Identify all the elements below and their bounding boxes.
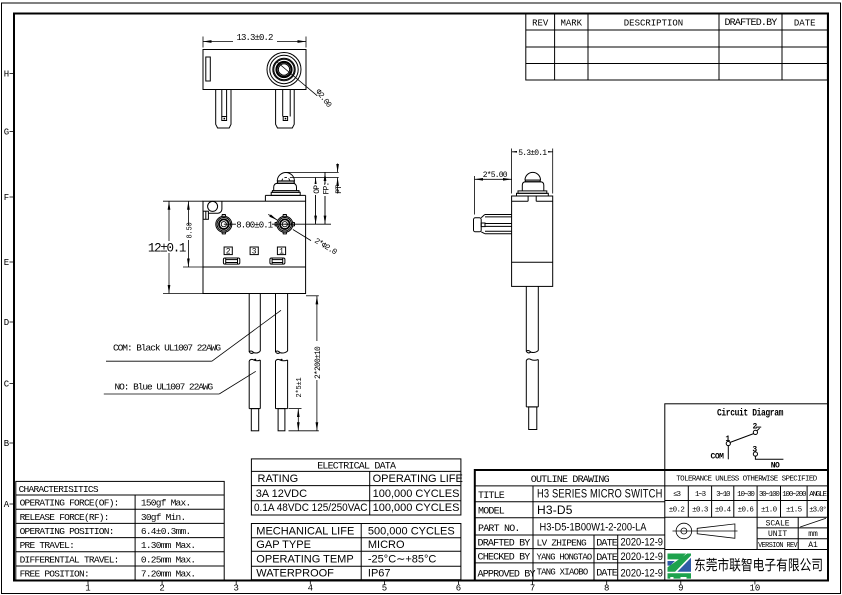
svg-text:DRAFTED.BY: DRAFTED.BY <box>724 18 777 29</box>
svg-text:2: 2 <box>752 422 757 431</box>
svg-text:100∼200: 100∼200 <box>782 491 807 499</box>
svg-text:VERSION REV: VERSION REV <box>758 542 798 550</box>
svg-text:3A 12VDC: 3A 12VDC <box>256 488 307 500</box>
svg-text:GAP TYPE: GAP TYPE <box>256 539 311 551</box>
company logo <box>668 554 692 579</box>
svg-text:8.00±0.1: 8.00±0.1 <box>236 221 273 231</box>
side view: button base plate 1 <box>518 191 547 193</box>
side view: button base plate 2 <box>517 193 549 196</box>
terminal number plate 3 <box>250 247 258 255</box>
svg-text:10∼30: 10∼30 <box>737 491 755 499</box>
svg-text:OUTLINE DRAWING: OUTLINE DRAWING <box>531 475 610 486</box>
svg-text:CHARACTERISITICS: CHARACTERISITICS <box>19 484 99 495</box>
svg-text:7: 7 <box>530 584 535 594</box>
svg-text:H: H <box>4 70 9 80</box>
svg-text:CHECKED BY: CHECKED BY <box>478 552 531 563</box>
svg-text:COM: Black UL1007 22AWG: COM: Black UL1007 22AWG <box>113 343 221 354</box>
svg-text:8.50: 8.50 <box>186 222 194 238</box>
svg-text:SCALE: SCALE <box>766 520 790 529</box>
front view: rivet left <box>216 216 232 232</box>
dimension 13.3±0.2 <box>202 37 204 48</box>
svg-text:5: 5 <box>382 584 387 594</box>
dimension 5.3±0.1 <box>511 149 513 194</box>
svg-text:1.30mm Max.: 1.30mm Max. <box>141 540 195 551</box>
svg-text:100,000 CYCLES: 100,000 CYCLES <box>373 488 460 500</box>
dimension FP <box>324 172 326 224</box>
side view: button shoulder <box>522 182 544 191</box>
svg-text:DATE: DATE <box>596 539 618 550</box>
front view: dome operating-position dashed arc <box>282 177 290 180</box>
top view: right terminal leg <box>276 90 295 129</box>
svg-text:2020-12-9: 2020-12-9 <box>621 551 664 563</box>
reference line operating position <box>290 177 339 179</box>
svg-text:12±0.1: 12±0.1 <box>148 242 186 256</box>
top view: left terminal leg <box>216 90 231 129</box>
leader 2*Φ2.0 <box>268 214 277 220</box>
svg-text:DATE: DATE <box>794 18 816 28</box>
svg-text:MECHANICAL LIFE: MECHANICAL LIFE <box>256 525 354 537</box>
svg-text:10: 10 <box>749 584 760 594</box>
svg-text:H3 SERIES MICRO SWITCH: H3 SERIES MICRO SWITCH <box>537 487 663 501</box>
wire 2 upper segment <box>275 294 277 353</box>
svg-text:OPERATING FORCE(OF):: OPERATING FORCE(OF): <box>20 498 119 509</box>
svg-text:30∼100: 30∼100 <box>759 491 781 499</box>
svg-text:FREE POSITION:: FREE POSITION: <box>20 569 89 580</box>
svg-text:Circuit Diagram: Circuit Diagram <box>717 408 783 420</box>
circuit contact 3 (NO) <box>753 452 757 456</box>
svg-text:YANG HONGTAO: YANG HONGTAO <box>537 551 593 562</box>
svg-text:TANG XIAOBO: TANG XIAOBO <box>537 566 589 577</box>
svg-text:6.4±0.3mm.: 6.4±0.3mm. <box>141 526 191 537</box>
svg-text:30gf Min.: 30gf Min. <box>141 512 186 523</box>
svg-text:1: 1 <box>85 584 90 594</box>
svg-text:F: F <box>4 193 9 203</box>
svg-text:OPERATING LIFE: OPERATING LIFE <box>373 473 463 485</box>
svg-text:1∼3: 1∼3 <box>695 491 707 499</box>
side view: lever arm tip cap <box>474 218 482 232</box>
terminal number plate 2 <box>224 247 232 255</box>
scale/unit/version rows <box>757 527 828 529</box>
svg-text:8: 8 <box>604 584 609 594</box>
svg-text:OP: OP <box>313 185 322 194</box>
svg-text:ANGLE: ANGLE <box>809 491 827 499</box>
front view: dome base band <box>278 181 295 183</box>
reference line free position <box>286 171 339 173</box>
svg-text:±0.2: ±0.2 <box>669 507 685 515</box>
wire 1 lower segment <box>248 361 250 409</box>
svg-text:OPERATING TEMP: OPERATING TEMP <box>256 554 353 566</box>
circuit contact 1 (COM) <box>726 441 730 445</box>
svg-text:2*5±1: 2*5±1 <box>296 377 304 397</box>
svg-text:IP67: IP67 <box>368 568 391 580</box>
side view: wire lower segment <box>525 361 527 407</box>
svg-text:±3.0°: ±3.0° <box>809 506 826 515</box>
svg-text:2*200±10: 2*200±10 <box>314 346 323 379</box>
title block outline <box>475 470 828 581</box>
wire 2 lower segment <box>275 361 277 409</box>
svg-text:0.25mm Max.: 0.25mm Max. <box>141 554 195 565</box>
svg-text:4: 4 <box>308 584 313 594</box>
top view: switch body outline <box>203 50 306 90</box>
side view: lever arm pin <box>481 223 485 227</box>
svg-text:LV ZHIPENG: LV ZHIPENG <box>537 537 588 548</box>
svg-text:NO: Blue UL1007 22AWG: NO: Blue UL1007 22AWG <box>115 382 214 393</box>
svg-text:APPROVED BY: APPROVED BY <box>478 569 536 580</box>
svg-text:±0.6: ±0.6 <box>738 507 755 515</box>
front view: rivet right <box>277 216 293 232</box>
terminal number plate 1 <box>277 247 285 255</box>
svg-text:500,000 CYCLES: 500,000 CYCLES <box>368 525 455 537</box>
svg-text:mm: mm <box>808 530 818 539</box>
tolerance table <box>665 485 828 487</box>
front view: button base plate 1 <box>272 191 299 193</box>
svg-text:DRAFTED BY: DRAFTED BY <box>478 538 531 549</box>
svg-text:ELECTRICAL DATA: ELECTRICAL DATA <box>317 462 396 473</box>
side view: button dome <box>525 172 541 180</box>
side view: wire bare conductor <box>529 407 537 430</box>
side view: dome base band <box>525 180 540 182</box>
svg-text:MARK: MARK <box>560 18 582 28</box>
dimension OP <box>315 178 317 225</box>
svg-text:0.1A 48VDC 125/250VAC: 0.1A 48VDC 125/250VAC <box>254 502 368 514</box>
svg-text:REV: REV <box>532 18 549 28</box>
svg-text:OPERATING POSITION:: OPERATING POSITION: <box>20 526 114 537</box>
svg-text:±1.0: ±1.0 <box>761 507 778 515</box>
dimension PT <box>337 164 339 173</box>
circuit switch blade <box>730 434 754 443</box>
dimension 2*200±10 <box>306 295 319 297</box>
dimension 12±0.1 <box>163 200 203 202</box>
circuit contact 2 <box>753 430 757 434</box>
svg-text:MICRO: MICRO <box>368 539 405 551</box>
svg-text:13.3±0.2: 13.3±0.2 <box>236 33 273 43</box>
top view: plunger circles <box>267 53 301 87</box>
front view: top step block <box>265 195 305 201</box>
svg-text:MODEL: MODEL <box>478 507 505 518</box>
svg-text:RATING: RATING <box>258 473 299 485</box>
svg-text:A: A <box>4 500 10 510</box>
svg-text:3: 3 <box>752 446 757 455</box>
front view: side tab <box>203 211 208 219</box>
side view: body split line <box>512 261 553 263</box>
svg-text:D: D <box>4 318 9 328</box>
svg-text:WATERPROOF: WATERPROOF <box>256 568 334 580</box>
svg-text:9: 9 <box>678 584 683 594</box>
front view: button dome <box>277 172 294 181</box>
dimension 2*5±1 <box>289 408 302 410</box>
svg-text:PRE TRAVEL:: PRE TRAVEL: <box>20 540 74 551</box>
side view: lever arm <box>485 214 512 216</box>
svg-text:2: 2 <box>159 584 164 594</box>
front view: corner bracket <box>208 201 222 213</box>
svg-text:150gf Max.: 150gf Max. <box>141 498 191 509</box>
front view: body outline <box>203 201 306 293</box>
svg-text:6: 6 <box>456 584 461 594</box>
svg-text:C: C <box>4 380 10 390</box>
svg-text:A1: A1 <box>808 541 818 550</box>
side view: cap seam line <box>512 200 528 202</box>
svg-text:TOLERANCE UNLESS OTHERWISE SPE: TOLERANCE UNLESS OTHERWISE SPECIFIED <box>676 475 818 483</box>
svg-text:DIFFERENTIAL TRAVEL:: DIFFERENTIAL TRAVEL: <box>20 554 119 565</box>
svg-text:±1.5: ±1.5 <box>786 507 803 515</box>
wire 1 insulation end line <box>249 408 260 410</box>
wire 2 insulation end line <box>276 408 288 410</box>
front view: button base plate 2 <box>271 192 300 195</box>
svg-text:100,000 CYCLES: 100,000 CYCLES <box>373 502 460 514</box>
mechanical data table <box>251 524 461 580</box>
wire 1 upper segment <box>248 294 250 353</box>
svg-text:UNIT: UNIT <box>768 530 787 539</box>
svg-text:PART NO.: PART NO. <box>478 524 520 535</box>
svg-text:±0.4: ±0.4 <box>715 507 732 515</box>
svg-text:3∼10: 3∼10 <box>716 491 731 499</box>
front view: button collar <box>274 183 297 190</box>
svg-text:DATE: DATE <box>596 553 618 564</box>
svg-text:RELEASE FORCE(RF):: RELEASE FORCE(RF): <box>20 512 109 523</box>
svg-text:-25°C∼+85°C: -25°C∼+85°C <box>368 554 437 566</box>
svg-text:2: 2 <box>226 248 231 257</box>
dimension 8.50 <box>183 266 203 268</box>
terminal slot left <box>223 258 239 264</box>
revision table <box>526 14 828 81</box>
characteristics table <box>16 481 224 580</box>
svg-text:TITLE: TITLE <box>478 491 505 502</box>
side view: body outline <box>512 196 553 286</box>
dimension 2*5.00 <box>474 176 476 215</box>
circuit diagram box <box>665 404 828 470</box>
svg-text:5.3±0.1: 5.3±0.1 <box>518 149 547 158</box>
svg-text:2*5.00: 2*5.00 <box>483 171 508 180</box>
electrical data table <box>251 459 461 515</box>
wire 2 bare conductor <box>278 409 285 431</box>
top view: left slot detail <box>206 57 211 81</box>
side view: wire upper segment <box>525 286 527 351</box>
svg-text:B: B <box>4 439 10 449</box>
svg-text:E: E <box>4 258 9 268</box>
svg-text:7.20mm Max.: 7.20mm Max. <box>141 569 195 580</box>
company name 东莞市联智电子有限公司 <box>695 558 822 572</box>
svg-text:3: 3 <box>252 248 257 257</box>
terminal slot right <box>270 258 285 264</box>
svg-text:1: 1 <box>279 248 284 257</box>
svg-text:DATE: DATE <box>596 569 618 580</box>
leader Φ2.00 <box>277 62 317 96</box>
svg-text:FP:: FP: <box>322 182 331 194</box>
svg-text:±0.3: ±0.3 <box>692 507 709 515</box>
front view: top-left hole circle <box>208 201 218 211</box>
projection symbol <box>756 517 758 549</box>
svg-text:H3-D5-1B00W1-2-200-LA: H3-D5-1B00W1-2-200-LA <box>540 522 648 534</box>
svg-text:COM: COM <box>711 453 725 462</box>
dimension 8.00±0.1 between rivets <box>229 223 332 225</box>
svg-text:DESCRIPTION: DESCRIPTION <box>624 18 683 28</box>
svg-text:2020-12-9: 2020-12-9 <box>621 537 664 549</box>
svg-text:2020-12-9: 2020-12-9 <box>621 568 664 580</box>
front view: inner split line <box>203 266 306 268</box>
svg-text:PT: PT <box>335 185 344 194</box>
svg-text:G: G <box>4 128 9 138</box>
svg-text:H3-D5: H3-D5 <box>537 503 573 517</box>
svg-text:3: 3 <box>233 584 238 594</box>
wire 1 bare conductor <box>251 409 258 431</box>
